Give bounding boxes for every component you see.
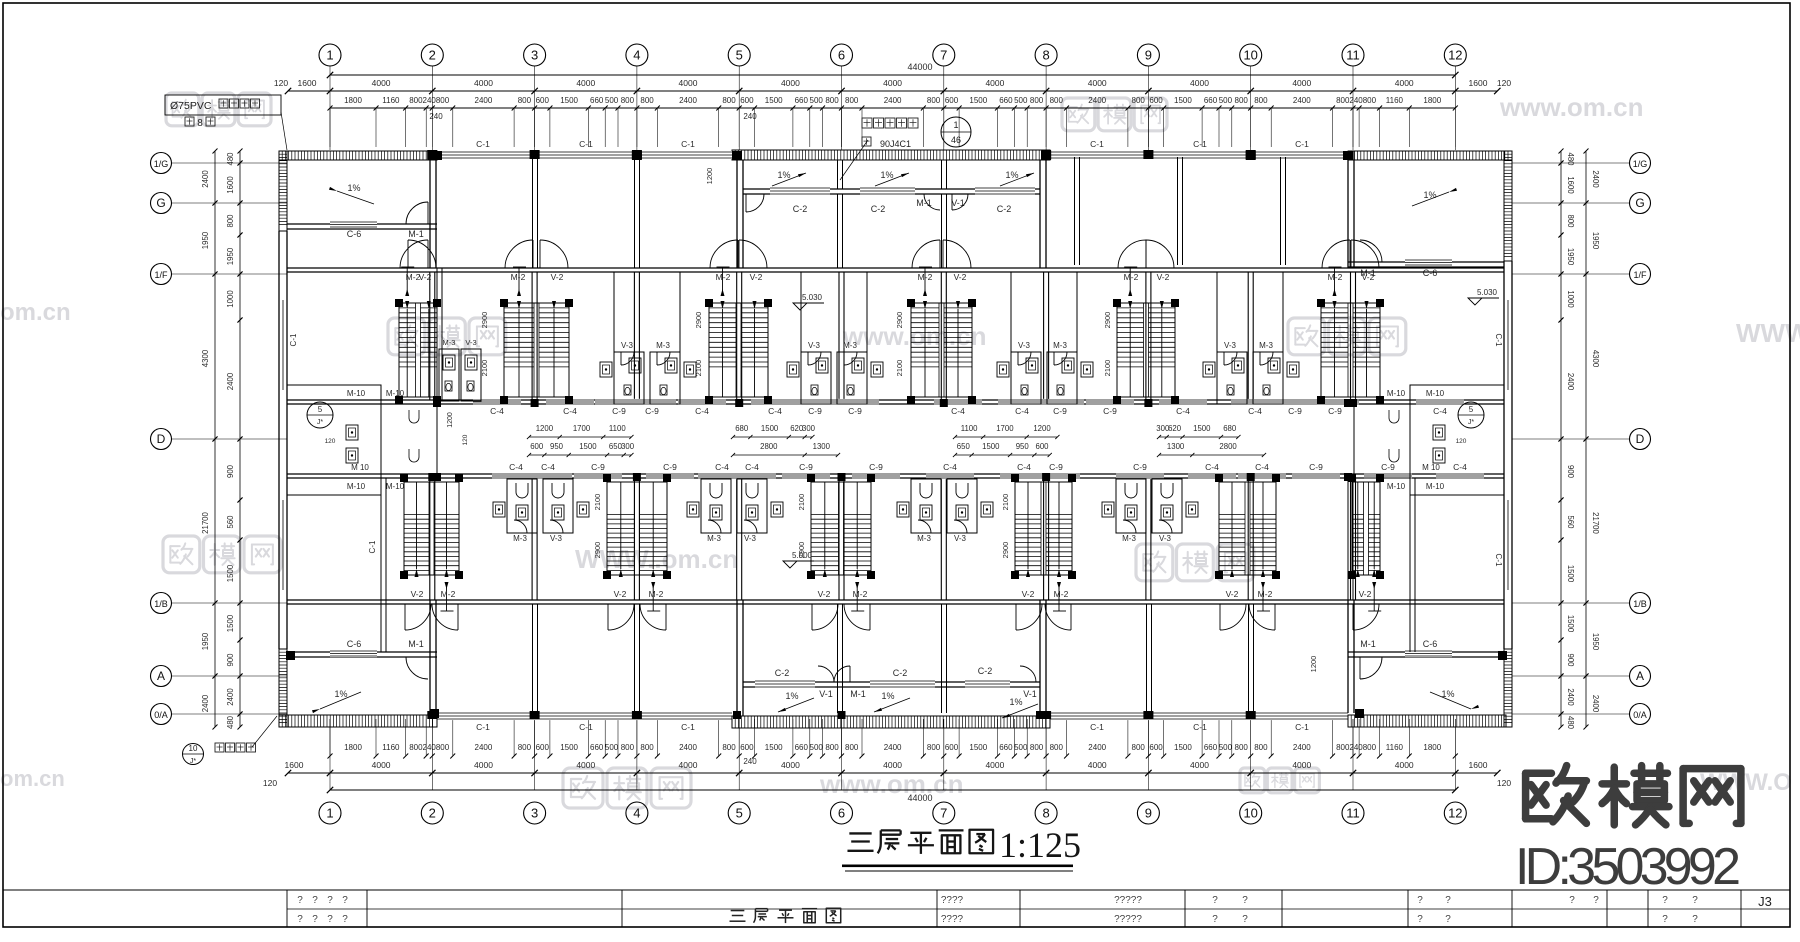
svg-text:C-2: C-2 [775, 668, 790, 678]
svg-text:500: 500 [1219, 96, 1233, 105]
svg-text:600: 600 [1035, 442, 1049, 451]
svg-text:44000: 44000 [907, 793, 932, 803]
svg-text:2900: 2900 [1001, 542, 1010, 559]
svg-text:1100: 1100 [961, 424, 978, 433]
svg-text:C-1: C-1 [579, 722, 593, 732]
svg-text:C-4: C-4 [768, 406, 782, 416]
svg-text:800: 800 [1363, 96, 1377, 105]
svg-text:V-2: V-2 [1226, 589, 1239, 599]
svg-text:V-3: V-3 [550, 534, 563, 543]
svg-text:G: G [1635, 196, 1644, 210]
stair block bottom x1219 [1219, 482, 1276, 575]
svg-text:M-10: M-10 [347, 482, 366, 491]
svg-text:2400: 2400 [226, 372, 235, 390]
svg-text:1600: 1600 [285, 760, 304, 770]
svg-text:4000: 4000 [883, 760, 902, 770]
svg-text:5: 5 [1469, 405, 1474, 414]
svg-text:2100: 2100 [895, 360, 904, 377]
svg-text:1: 1 [326, 48, 333, 63]
svg-text:2400: 2400 [884, 96, 902, 105]
svg-text:800: 800 [845, 743, 859, 752]
svg-text:4000: 4000 [576, 760, 595, 770]
svg-text:1500: 1500 [765, 743, 783, 752]
svg-text:600: 600 [530, 442, 544, 451]
svg-text:8: 8 [1042, 48, 1049, 63]
svg-text:2400: 2400 [201, 170, 210, 188]
stair block top x399 [399, 303, 437, 397]
svg-text:V-3: V-3 [621, 341, 634, 350]
svg-text:C-4: C-4 [1176, 406, 1190, 416]
svg-text:1500: 1500 [765, 96, 783, 105]
table small title [730, 911, 746, 922]
svg-text:1700: 1700 [573, 424, 591, 433]
svg-text:1500: 1500 [226, 564, 235, 582]
svg-text:?: ? [1417, 914, 1423, 925]
svg-text:C-1: C-1 [681, 139, 695, 149]
svg-text:?: ? [1692, 895, 1698, 906]
corridor dimension chains [529, 436, 631, 438]
svg-text:2400: 2400 [679, 96, 697, 105]
svg-text:660: 660 [999, 743, 1013, 752]
svg-text:2100: 2100 [593, 494, 602, 511]
svg-text:500: 500 [605, 96, 619, 105]
bath cluster top x834 [801, 352, 831, 404]
svg-text:V-2: V-2 [1022, 589, 1035, 599]
svg-text:C-6: C-6 [347, 229, 362, 239]
svg-text:500: 500 [1219, 743, 1233, 752]
svg-text:900: 900 [1566, 653, 1575, 667]
svg-text:2800: 2800 [760, 442, 778, 451]
svg-text:C-1: C-1 [1295, 722, 1309, 732]
svg-text:1100: 1100 [609, 424, 626, 433]
right end unit M-10 [1410, 385, 1504, 495]
svg-text:4300: 4300 [201, 349, 210, 367]
svg-text:900: 900 [226, 464, 235, 478]
svg-text:C-1: C-1 [1295, 139, 1309, 149]
svg-text:1200: 1200 [447, 412, 454, 428]
svg-text:C-9: C-9 [848, 406, 862, 416]
svg-text:C-4: C-4 [715, 462, 729, 472]
svg-text:5.000: 5.000 [792, 551, 813, 560]
svg-text:?: ? [342, 895, 348, 906]
svg-text:C-9: C-9 [1309, 462, 1323, 472]
svg-text:2400: 2400 [1293, 743, 1311, 752]
svg-text:M-3: M-3 [656, 341, 670, 350]
svg-text:M-1: M-1 [1360, 639, 1376, 649]
svg-text:C-6: C-6 [347, 639, 362, 649]
svg-text:V-3: V-3 [1159, 534, 1172, 543]
svg-text:ID:3503992: ID:3503992 [1515, 838, 1741, 896]
stair block bottom x404 [404, 482, 459, 575]
svg-text:M-10: M-10 [1387, 389, 1406, 398]
svg-text:1500: 1500 [226, 614, 235, 632]
annotation balcony panel note [183, 744, 204, 765]
svg-text:1600: 1600 [1469, 760, 1488, 770]
svg-text:2400: 2400 [679, 743, 697, 752]
bottom long wall [287, 599, 1504, 601]
svg-text:C-1: C-1 [289, 333, 298, 346]
svg-text:M-1: M-1 [408, 639, 424, 649]
svg-text:?????: ????? [1114, 895, 1142, 906]
svg-text:800: 800 [1254, 743, 1268, 752]
svg-text:1%: 1% [880, 170, 893, 180]
annotation roof panel note [862, 118, 872, 128]
stair block top x504 [504, 303, 569, 397]
svg-text:660: 660 [590, 743, 604, 752]
right dimension band and row bubbles [1630, 153, 1651, 174]
bath cluster bottom x1149 [1116, 479, 1146, 533]
svg-text:1300: 1300 [1167, 442, 1185, 451]
svg-text:4000: 4000 [985, 78, 1004, 88]
svg-text:900: 900 [226, 653, 235, 667]
top-left wing room [287, 223, 437, 225]
svg-text:2100: 2100 [1103, 360, 1112, 377]
svg-text:1500: 1500 [1174, 96, 1192, 105]
svg-text:V-3: V-3 [808, 341, 821, 350]
svg-text:2400: 2400 [1088, 96, 1106, 105]
svg-text:????: ???? [941, 895, 964, 906]
svg-text:800: 800 [409, 743, 423, 752]
svg-text:560: 560 [1566, 515, 1575, 529]
svg-text:M-10: M-10 [386, 389, 405, 398]
svg-text:240: 240 [423, 96, 437, 105]
svg-text:V-3: V-3 [744, 534, 757, 543]
svg-text:1%: 1% [785, 691, 798, 701]
svg-text:V-3: V-3 [1018, 341, 1031, 350]
stair block bottom x1352 [1352, 482, 1380, 575]
svg-text:J*: J* [190, 758, 197, 765]
svg-text:C-9: C-9 [612, 406, 626, 416]
svg-text:M-1: M-1 [408, 229, 424, 239]
svg-text:C-2: C-2 [997, 204, 1012, 214]
svg-text:M-3: M-3 [917, 534, 931, 543]
svg-text:10: 10 [189, 744, 198, 753]
svg-text:1600: 1600 [1566, 176, 1575, 194]
svg-text:C-4: C-4 [1205, 462, 1219, 472]
svg-text:800: 800 [640, 743, 654, 752]
svg-text:800: 800 [621, 743, 635, 752]
svg-text:C-4: C-4 [1433, 406, 1447, 416]
svg-text:1000: 1000 [226, 290, 235, 308]
svg-text:4000: 4000 [781, 78, 800, 88]
svg-text:5: 5 [736, 48, 743, 63]
svg-text:800: 800 [621, 96, 635, 105]
svg-text:4300: 4300 [1591, 350, 1600, 368]
svg-text:C-1: C-1 [681, 722, 695, 732]
svg-text:C-1: C-1 [1494, 554, 1503, 567]
svg-text:1: 1 [953, 120, 958, 130]
top dimension lines and grid bubbles [330, 74, 1455, 76]
unit entry doors top [400, 240, 428, 268]
svg-text:?: ? [312, 914, 318, 925]
outer walls [279, 151, 437, 160]
svg-text:2100: 2100 [797, 494, 806, 511]
svg-text:1%: 1% [347, 183, 360, 193]
svg-text:C-4: C-4 [509, 462, 523, 472]
svg-text:V-2: V-2 [1157, 272, 1170, 282]
svg-text:C-9: C-9 [808, 406, 822, 416]
svg-text:www.om.cn: www.om.cn [1499, 92, 1644, 122]
svg-text:800: 800 [845, 96, 859, 105]
svg-text:4: 4 [633, 806, 640, 821]
svg-text:1500: 1500 [761, 424, 779, 433]
corridor walls [287, 399, 1504, 401]
svg-text:V-2: V-2 [1362, 272, 1375, 282]
svg-text:C-4: C-4 [541, 462, 555, 472]
svg-text:1200: 1200 [1309, 656, 1318, 673]
svg-text:800: 800 [722, 743, 736, 752]
svg-text:4000: 4000 [1190, 78, 1209, 88]
svg-text:4000: 4000 [474, 760, 493, 770]
svg-text:600: 600 [536, 743, 550, 752]
svg-text:?: ? [1593, 895, 1599, 906]
svg-text:J*: J* [1468, 419, 1475, 426]
svg-text:1160: 1160 [382, 96, 400, 105]
svg-text:?: ? [327, 914, 333, 925]
svg-text:om.cn: om.cn [0, 766, 65, 791]
svg-text:900: 900 [1566, 465, 1575, 479]
svg-text:1500: 1500 [560, 743, 578, 752]
svg-text:M-2: M-2 [1124, 272, 1139, 282]
svg-text:9: 9 [1145, 806, 1152, 821]
svg-text:M-2: M-2 [853, 589, 868, 599]
svg-text:V-1: V-1 [951, 198, 965, 208]
bath cluster bottom x944 [911, 479, 941, 533]
svg-text:2400: 2400 [475, 743, 493, 752]
bath cluster bottom x734 [701, 479, 731, 533]
svg-text:C-4: C-4 [695, 406, 709, 416]
svg-text:Ø75PVC: Ø75PVC [170, 100, 212, 112]
svg-text:240: 240 [423, 743, 437, 752]
interior grid walls top half [429, 272, 431, 400]
svg-text:?????: ????? [1114, 914, 1142, 925]
svg-text:1200: 1200 [1033, 424, 1051, 433]
svg-text:21700: 21700 [201, 511, 210, 533]
svg-text:1160: 1160 [382, 743, 400, 752]
svg-text:C-4: C-4 [745, 462, 759, 472]
svg-text:600: 600 [945, 743, 959, 752]
svg-text:800: 800 [1254, 96, 1268, 105]
left end small bathroom next to stair [439, 349, 459, 401]
svg-text:800: 800 [825, 96, 839, 105]
svg-text:680: 680 [735, 424, 749, 433]
svg-text:1950: 1950 [201, 632, 210, 650]
title block table [3, 889, 1790, 891]
svg-text:4000: 4000 [1190, 760, 1209, 770]
left dimension band and row bubbles [151, 153, 172, 174]
svg-text:240: 240 [743, 757, 757, 766]
svg-text:A: A [157, 669, 165, 683]
svg-text:800: 800 [436, 96, 450, 105]
svg-text:1/B: 1/B [154, 599, 168, 609]
svg-text:1700: 1700 [996, 424, 1014, 433]
svg-text:J*: J* [317, 419, 324, 426]
svg-text:1800: 1800 [344, 96, 362, 105]
svg-text:600: 600 [740, 96, 754, 105]
svg-text:M-2: M-2 [1054, 589, 1069, 599]
svg-text:1/F: 1/F [154, 270, 168, 280]
svg-text:44000: 44000 [907, 62, 932, 72]
svg-text:4000: 4000 [1088, 78, 1107, 88]
svg-text:600: 600 [740, 743, 754, 752]
svg-text:C-1: C-1 [1193, 722, 1207, 732]
svg-text:500: 500 [810, 96, 824, 105]
svg-text:1800: 1800 [1423, 743, 1441, 752]
svg-text:4000: 4000 [883, 78, 902, 88]
stair block bottom x607 [607, 482, 667, 575]
svg-text:480: 480 [1566, 716, 1575, 730]
svg-text:1600: 1600 [298, 78, 317, 88]
svg-text:1800: 1800 [1423, 96, 1441, 105]
bath cluster bottom x540 [507, 479, 537, 533]
stair block bottom x1015 [1015, 482, 1072, 575]
svg-text:800: 800 [722, 96, 736, 105]
svg-text:?: ? [312, 895, 318, 906]
svg-text:1800: 1800 [344, 743, 362, 752]
svg-text:800: 800 [1132, 743, 1146, 752]
svg-text:800: 800 [1235, 96, 1249, 105]
svg-text:2400: 2400 [226, 688, 235, 706]
svg-text:?: ? [1242, 895, 1248, 906]
svg-text:?: ? [1692, 914, 1698, 925]
svg-text:9: 9 [1145, 48, 1152, 63]
middle top unit [736, 160, 738, 268]
svg-text:V-1: V-1 [1023, 689, 1037, 699]
svg-text:800: 800 [1132, 96, 1146, 105]
structural columns [427, 151, 437, 160]
svg-text:M-3: M-3 [1053, 341, 1067, 350]
svg-text:?: ? [342, 914, 348, 925]
svg-text:12: 12 [1448, 806, 1462, 821]
svg-text:M-3: M-3 [1122, 534, 1136, 543]
svg-text:800: 800 [1030, 743, 1044, 752]
svg-text:www.om.cn: www.om.cn [842, 321, 987, 351]
svg-text:C-9: C-9 [591, 462, 605, 472]
svg-text:6: 6 [838, 48, 845, 63]
svg-text:1%: 1% [1005, 170, 1018, 180]
svg-text:1200: 1200 [536, 424, 554, 433]
svg-text:C-1: C-1 [1090, 722, 1104, 732]
svg-text:1%: 1% [1423, 190, 1436, 200]
svg-text:4000: 4000 [1395, 760, 1414, 770]
svg-text:C-4: C-4 [943, 462, 957, 472]
svg-text:7: 7 [940, 48, 947, 63]
svg-text:1/F: 1/F [1633, 270, 1647, 280]
svg-text:?: ? [1662, 895, 1668, 906]
svg-text:2: 2 [429, 806, 436, 821]
svg-text:2400: 2400 [1088, 743, 1106, 752]
svg-text:M-10: M-10 [386, 482, 405, 491]
svg-text:1500: 1500 [560, 96, 578, 105]
svg-text:1500: 1500 [1174, 743, 1192, 752]
svg-text:M-2: M-2 [511, 272, 526, 282]
svg-text:650: 650 [957, 442, 971, 451]
room band dividers [532, 157, 534, 268]
svg-text:800: 800 [436, 743, 450, 752]
svg-text:2900: 2900 [593, 542, 602, 559]
svg-text:1500: 1500 [1566, 615, 1575, 633]
svg-text:660: 660 [999, 96, 1013, 105]
svg-text:C-9: C-9 [1049, 462, 1063, 472]
svg-text:800: 800 [1050, 96, 1064, 105]
svg-text:300: 300 [621, 442, 635, 451]
svg-text:1950: 1950 [226, 247, 235, 265]
svg-text:????: ???? [941, 914, 964, 925]
svg-text:?: ? [1445, 895, 1451, 906]
stair block top x1321 [1321, 303, 1380, 397]
svg-text:V-2: V-2 [614, 589, 627, 599]
stair block top x709 [709, 303, 768, 397]
svg-text:800: 800 [1235, 743, 1249, 752]
svg-text:1160: 1160 [1386, 743, 1404, 752]
svg-text:800: 800 [640, 96, 654, 105]
svg-text:4000: 4000 [1292, 78, 1311, 88]
svg-text:4000: 4000 [1292, 760, 1311, 770]
svg-text:V-1: V-1 [819, 689, 833, 699]
svg-text:8: 8 [1042, 806, 1049, 821]
svg-text:V-2: V-2 [1359, 589, 1372, 599]
svg-text:660: 660 [590, 96, 604, 105]
svg-text:2900: 2900 [1103, 312, 1112, 329]
unit entry doors bottom [405, 604, 431, 630]
svg-text:1000: 1000 [1566, 290, 1575, 308]
stair block top x1117 [1117, 303, 1175, 397]
svg-text:M 10: M 10 [1422, 463, 1440, 472]
svg-text:120: 120 [274, 78, 288, 88]
svg-text:?: ? [327, 895, 333, 906]
svg-text:1500: 1500 [579, 442, 597, 451]
svg-text:C-2: C-2 [871, 204, 886, 214]
svg-text:800: 800 [1336, 743, 1350, 752]
svg-text:1500: 1500 [1566, 565, 1575, 583]
bottom-right wing room [1348, 651, 1504, 653]
svg-text:C-4: C-4 [1017, 462, 1031, 472]
svg-text:C-9: C-9 [1133, 462, 1147, 472]
stair block bottom x811 [811, 482, 871, 575]
svg-text:680: 680 [1223, 424, 1237, 433]
svg-text:950: 950 [1016, 442, 1030, 451]
svg-text:480: 480 [1566, 152, 1575, 166]
svg-text:?: ? [297, 914, 303, 925]
svg-text:G: G [156, 196, 165, 210]
svg-text:2400: 2400 [1566, 688, 1575, 706]
svg-text:C-4: C-4 [490, 406, 504, 416]
svg-text:800: 800 [226, 214, 235, 228]
svg-text:C-4: C-4 [1453, 462, 1467, 472]
svg-text:C-1: C-1 [476, 139, 490, 149]
svg-text:600: 600 [1149, 96, 1163, 105]
svg-text:1950: 1950 [1566, 248, 1575, 266]
svg-text:C-9: C-9 [1328, 406, 1342, 416]
svg-text:V-2: V-2 [818, 589, 831, 599]
svg-text:M-10: M-10 [1426, 389, 1445, 398]
svg-text:3: 3 [531, 48, 538, 63]
svg-text:2400: 2400 [884, 743, 902, 752]
svg-text:46: 46 [951, 135, 961, 145]
svg-text:2800: 2800 [1219, 442, 1237, 451]
svg-text:A: A [1636, 669, 1644, 683]
svg-text:3: 3 [531, 806, 538, 821]
svg-text:1%: 1% [1009, 697, 1022, 707]
svg-text:C-2: C-2 [893, 668, 908, 678]
svg-text:M-10: M-10 [1387, 482, 1406, 491]
svg-text:4000: 4000 [985, 760, 1004, 770]
svg-text:?: ? [1417, 895, 1423, 906]
svg-text:480: 480 [226, 152, 235, 166]
svg-text:2900: 2900 [694, 312, 703, 329]
top long wall [287, 267, 1504, 269]
interior grid walls bottom half [429, 478, 431, 600]
